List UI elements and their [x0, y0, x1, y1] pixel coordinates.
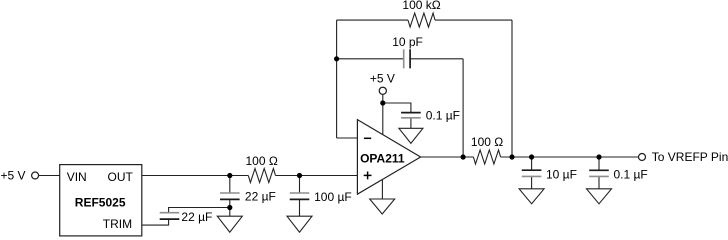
svg-text:OPA211: OPA211: [360, 152, 405, 166]
svg-text:100 µF: 100 µF: [314, 190, 352, 204]
svg-text:100 kΩ: 100 kΩ: [402, 0, 440, 12]
svg-text:10 pF: 10 pF: [392, 35, 423, 49]
svg-text:VIN: VIN: [67, 170, 87, 184]
svg-text:+5 V: +5 V: [370, 72, 395, 86]
svg-text:TRIM: TRIM: [103, 217, 132, 231]
svg-text:To VREFP Pin: To VREFP Pin: [652, 150, 728, 164]
svg-text:0.1 µF: 0.1 µF: [426, 109, 460, 123]
svg-text:100 Ω: 100 Ω: [471, 135, 503, 149]
svg-text:22 µF: 22 µF: [181, 210, 212, 224]
svg-text:100 Ω: 100 Ω: [246, 154, 278, 168]
svg-text:+5 V: +5 V: [1, 168, 26, 182]
svg-text:OUT: OUT: [108, 170, 134, 184]
svg-text:22 µF: 22 µF: [245, 190, 276, 204]
svg-text:10 µF: 10 µF: [546, 167, 577, 181]
svg-text:0.1 µF: 0.1 µF: [614, 167, 648, 181]
svg-text:REF5025: REF5025: [75, 196, 126, 210]
